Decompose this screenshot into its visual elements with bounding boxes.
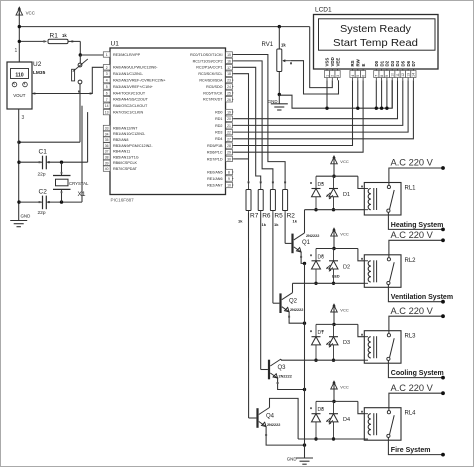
svg-text:39: 39 — [105, 161, 109, 165]
svg-text:RB3/AN9/PGM/C12IN2-: RB3/AN9/PGM/C12IN2- — [113, 144, 153, 148]
svg-text:RD2: RD2 — [215, 124, 222, 128]
svg-text:4: 4 — [351, 75, 355, 77]
svg-text:18: 18 — [227, 72, 231, 76]
svg-text:PIC16F887: PIC16F887 — [111, 198, 135, 203]
svg-text:RC0/T1OSO/T1CKI: RC0/T1OSO/T1CKI — [190, 53, 222, 57]
svg-text:R1: R1 — [50, 33, 59, 40]
svg-text:R6: R6 — [262, 213, 271, 220]
svg-text:RA3/AN3/VREF+/C1IN+: RA3/AN3/VREF+/C1IN+ — [113, 85, 153, 89]
svg-text:RE2/AN7: RE2/AN7 — [207, 183, 222, 187]
svg-text:C1: C1 — [39, 149, 48, 156]
svg-text:VDD: VDD — [330, 57, 335, 66]
svg-text:RD6/P1C: RD6/P1C — [207, 151, 223, 155]
svg-text:RC2/P1A/CCP1: RC2/P1A/CCP1 — [196, 66, 222, 70]
svg-text:VSS: VSS — [325, 58, 330, 67]
svg-text:RD7/P1D: RD7/P1D — [207, 157, 223, 161]
svg-text:X1: X1 — [78, 191, 86, 198]
svg-text:RL3: RL3 — [405, 334, 417, 340]
svg-text:14: 14 — [412, 73, 416, 77]
svg-text:Heating System: Heating System — [391, 222, 444, 229]
svg-text:RE3/MCLR/VPP: RE3/MCLR/VPP — [113, 53, 141, 57]
svg-text:30: 30 — [227, 157, 231, 161]
svg-text:26: 26 — [227, 98, 231, 102]
svg-text:RL1: RL1 — [405, 186, 417, 192]
svg-text:D3: D3 — [343, 340, 350, 346]
svg-text:3: 3 — [22, 115, 25, 121]
svg-text:System Ready: System Ready — [340, 23, 412, 35]
svg-text:12: 12 — [401, 73, 405, 77]
svg-text:RD0: RD0 — [215, 110, 222, 114]
svg-text:VOUT: VOUT — [13, 93, 26, 98]
svg-text:RB5/AN13/T1G: RB5/AN13/T1G — [113, 155, 139, 159]
svg-text:RC1/T1OSI/CCP2: RC1/T1OSI/CCP2 — [193, 59, 223, 63]
svg-text:E: E — [361, 64, 366, 67]
svg-text:VCC: VCC — [340, 384, 349, 389]
svg-text:D5: D5 — [401, 60, 406, 66]
svg-text:13: 13 — [406, 73, 410, 77]
svg-text:VCC: VCC — [340, 159, 349, 164]
svg-text:RC5/SDO: RC5/SDO — [206, 85, 223, 89]
svg-text:R7: R7 — [250, 213, 259, 220]
svg-text:VCC: VCC — [340, 307, 349, 312]
svg-text:D7: D7 — [411, 60, 416, 66]
svg-text:C2: C2 — [39, 189, 48, 196]
svg-text:17: 17 — [227, 66, 231, 70]
svg-text:27: 27 — [227, 137, 231, 141]
svg-text:38: 38 — [105, 156, 109, 160]
svg-text:D2: D2 — [385, 60, 390, 66]
svg-text:RD1: RD1 — [215, 117, 222, 121]
svg-text:1k: 1k — [274, 222, 279, 227]
svg-text:1: 1 — [15, 48, 18, 54]
svg-text:1k: 1k — [238, 219, 243, 224]
svg-text:8: 8 — [380, 75, 384, 77]
svg-text:5: 5 — [356, 75, 360, 77]
svg-text:A.C 220 V: A.C 220 V — [391, 306, 434, 316]
svg-text:RW: RW — [356, 58, 361, 66]
svg-text:19: 19 — [227, 111, 231, 115]
svg-text:RB7/ICSPDAT: RB7/ICSPDAT — [113, 167, 138, 171]
svg-text:40: 40 — [105, 167, 109, 171]
svg-text:RA0/AN0/ULPWU/C12IN0-: RA0/AN0/ULPWU/C12IN0- — [113, 66, 158, 70]
svg-text:2N2222: 2N2222 — [306, 234, 319, 238]
svg-text:23: 23 — [227, 79, 231, 83]
svg-text:D0: D0 — [374, 60, 379, 66]
svg-text:A.C 220 V: A.C 220 V — [391, 383, 434, 393]
svg-text:R5: R5 — [274, 213, 283, 220]
svg-text:Fire System: Fire System — [391, 447, 431, 454]
svg-text:6: 6 — [106, 91, 108, 95]
svg-text:RE0/AN5: RE0/AN5 — [207, 170, 222, 174]
svg-text:RC7/RX/DT: RC7/RX/DT — [203, 98, 223, 102]
svg-text:RB2/AN8: RB2/AN8 — [113, 138, 128, 142]
svg-text:Q3: Q3 — [278, 365, 287, 371]
svg-text:RE1/AN6: RE1/AN6 — [207, 177, 222, 181]
svg-text:RL2: RL2 — [405, 258, 417, 264]
svg-text:9: 9 — [228, 177, 230, 181]
svg-text:2N2222: 2N2222 — [279, 375, 292, 379]
svg-text:RB1/AN10/C12IN3-: RB1/AN10/C12IN3- — [113, 132, 146, 136]
svg-text:RC3/SCK/SCL: RC3/SCK/SCL — [198, 72, 222, 76]
svg-text:VCC: VCC — [26, 11, 35, 16]
svg-text:RA2/AN2/VREF-/CVREF/C2IN+: RA2/AN2/VREF-/CVREF/C2IN+ — [113, 79, 166, 83]
svg-text:D4: D4 — [395, 60, 400, 66]
svg-text:RA1/AN1/C12IN1-: RA1/AN1/C12IN1- — [113, 72, 144, 76]
svg-text:1k: 1k — [62, 33, 67, 38]
svg-text:33: 33 — [105, 127, 109, 131]
svg-text:GND: GND — [268, 99, 278, 104]
svg-text:RA4/T0CKI/C1OUT: RA4/T0CKI/C1OUT — [113, 91, 146, 95]
svg-text:22: 22 — [227, 131, 231, 135]
svg-text:10: 10 — [391, 73, 395, 77]
svg-text:1k: 1k — [262, 222, 267, 227]
svg-text:RA7/OSC1/CLKIN: RA7/OSC1/CLKIN — [113, 111, 143, 115]
svg-text:RD5/P1B: RD5/P1B — [207, 144, 223, 148]
svg-text:VCC: VCC — [340, 232, 349, 237]
svg-text:VEE: VEE — [335, 58, 340, 67]
svg-text:RD3: RD3 — [215, 131, 222, 135]
svg-text:7: 7 — [375, 75, 379, 77]
svg-text:RS: RS — [350, 60, 355, 66]
svg-text:D2: D2 — [343, 264, 350, 270]
svg-text:21: 21 — [227, 124, 231, 128]
svg-text:35: 35 — [105, 138, 109, 142]
svg-text:RB0/AN12/INT: RB0/AN12/INT — [113, 126, 138, 130]
svg-text:34: 34 — [105, 132, 109, 136]
svg-text:29: 29 — [227, 151, 231, 155]
svg-text:25: 25 — [227, 91, 231, 95]
svg-text:GND: GND — [21, 214, 31, 219]
svg-text:37: 37 — [105, 150, 109, 154]
svg-text:RD4: RD4 — [215, 137, 222, 141]
svg-text:16: 16 — [227, 59, 231, 63]
svg-text:20: 20 — [227, 117, 231, 121]
svg-text:15: 15 — [227, 53, 231, 57]
svg-text:GND: GND — [287, 457, 297, 462]
svg-text:RB4/AN11: RB4/AN11 — [113, 150, 130, 154]
svg-text:22p: 22p — [38, 172, 46, 178]
svg-text:Q1: Q1 — [302, 240, 311, 246]
svg-text:36: 36 — [105, 144, 109, 148]
svg-text:U1: U1 — [111, 41, 120, 48]
svg-text:22p: 22p — [38, 210, 46, 216]
svg-text:D1: D1 — [343, 192, 350, 198]
svg-text:1: 1 — [106, 53, 108, 57]
svg-text:D4: D4 — [343, 417, 350, 423]
svg-text:LCD1: LCD1 — [315, 7, 332, 14]
svg-text:7: 7 — [106, 98, 108, 102]
svg-text:2N2222: 2N2222 — [290, 308, 303, 312]
svg-text:8: 8 — [228, 171, 230, 175]
svg-text:Q2: Q2 — [289, 299, 298, 305]
svg-text:24: 24 — [227, 85, 231, 89]
svg-text:4: 4 — [106, 79, 108, 83]
svg-text:110: 110 — [15, 73, 23, 79]
svg-text:D1: D1 — [379, 60, 384, 66]
svg-text:1k: 1k — [293, 219, 298, 224]
svg-text:RL4: RL4 — [405, 411, 417, 417]
svg-text:RA5/AN4/SS/C2OUT: RA5/AN4/SS/C2OUT — [113, 98, 149, 102]
svg-text:RC4/SDI/SDA: RC4/SDI/SDA — [199, 79, 223, 83]
svg-text:RB6/ICSPCLK: RB6/ICSPCLK — [113, 161, 138, 165]
svg-text:RV1: RV1 — [262, 42, 274, 48]
svg-text:2N2222: 2N2222 — [267, 423, 280, 427]
svg-text:D3: D3 — [390, 60, 395, 66]
svg-text:2: 2 — [331, 75, 335, 77]
svg-text:10: 10 — [227, 184, 231, 188]
svg-text:Cooling System: Cooling System — [391, 370, 444, 377]
svg-text:13: 13 — [105, 111, 109, 115]
svg-text:Start Temp Read: Start Temp Read — [333, 37, 418, 49]
svg-text:1k: 1k — [281, 43, 286, 48]
svg-text:RA6/OSC2/CLKOUT: RA6/OSC2/CLKOUT — [113, 104, 148, 108]
svg-text:A.C 220 V: A.C 220 V — [391, 158, 434, 168]
svg-text:Ventilation System: Ventilation System — [391, 294, 453, 301]
svg-text:1: 1 — [325, 75, 329, 77]
svg-text:LM35: LM35 — [33, 70, 46, 76]
svg-text:A.C 220 V: A.C 220 V — [391, 230, 434, 240]
svg-text:D6: D6 — [406, 60, 411, 66]
svg-text:11: 11 — [396, 73, 400, 77]
svg-text:3: 3 — [336, 75, 340, 77]
svg-text:U2: U2 — [33, 61, 42, 68]
svg-text:LED: LED — [332, 274, 340, 278]
svg-text:RC6/TX/CK: RC6/TX/CK — [203, 91, 223, 95]
svg-text:28: 28 — [227, 144, 231, 148]
svg-text:14: 14 — [105, 104, 109, 108]
svg-text:9: 9 — [385, 75, 389, 77]
svg-text:Q4: Q4 — [266, 414, 275, 420]
svg-text:3: 3 — [106, 72, 108, 76]
svg-text:6: 6 — [361, 75, 365, 77]
svg-text:5: 5 — [106, 85, 108, 89]
svg-text:2: 2 — [106, 66, 108, 70]
svg-text:CRYSTAL: CRYSTAL — [69, 181, 89, 186]
